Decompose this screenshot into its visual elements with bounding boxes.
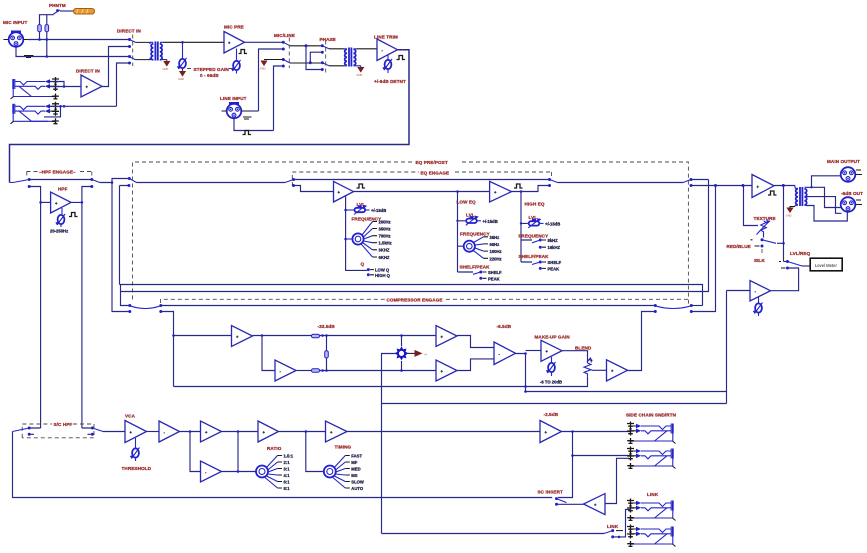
wire to -6db xlr — [806, 197, 842, 214]
potentiometer makeup — [546, 357, 556, 376]
switch red/blue — [751, 238, 777, 247]
wire hpf bypass drop — [29, 187, 40, 429]
SEC_VCA2 — [382, 412, 677, 547]
wire mu gain feed — [526, 350, 542, 352]
switch comp engage out — [654, 304, 693, 313]
svg-text:?: ? — [590, 359, 593, 364]
wire main line to eq engage — [137, 182, 286, 184]
svg-text:LINK: LINK — [607, 524, 619, 529]
svg-text:STEPPED GAIN: STEPPED GAIN — [194, 67, 230, 72]
dashed EQ PRE/POST box — [133, 162, 415, 300]
svg-text:SHELF/PEAK: SHELF/PEAK — [519, 254, 550, 259]
wire eq prepost B stub — [120, 186, 129, 285]
connector XLR J6 -6db out — [841, 197, 856, 212]
svg-text:RED/BLUE: RED/BLUE — [727, 244, 751, 249]
wire line input riser — [259, 49, 284, 111]
wire bus B — [121, 180, 709, 306]
svg-text:+/-15dB: +/-15dB — [483, 219, 498, 224]
potentiometer hpf freq — [55, 208, 65, 227]
svg-text:100Hz: 100Hz — [490, 249, 502, 254]
op-amp U18 — [201, 421, 222, 442]
op-amp U10 comp in- — [275, 360, 296, 381]
block level meter — [810, 258, 842, 271]
svg-text:COMPRESSOR ENGAGE: COMPRESSOR ENGAGE — [387, 297, 443, 302]
svg-text:6KHZ: 6KHZ — [379, 255, 390, 260]
ground gnd1 — [163, 60, 171, 71]
pulse symbol line input — [243, 131, 252, 135]
svg-text:0 - 66dB: 0 - 66dB — [200, 73, 219, 78]
wire jack tip to DI amp — [48, 86, 81, 88]
wire to meter — [802, 265, 810, 267]
svg-text:Q: Q — [361, 261, 365, 266]
wire comp+ out — [253, 335, 312, 337]
dashed EQ ENGAGE — [292, 172, 419, 186]
pulse symbol mic pre — [239, 50, 248, 54]
wire sidechain bus — [526, 391, 727, 393]
wire hpf in — [29, 179, 92, 181]
svg-text:4:1: 4:1 — [284, 473, 291, 478]
wire sum out — [516, 354, 526, 392]
label HPF ENGAGE — [27, 171, 93, 173]
wire phase feed — [290, 46, 322, 63]
op-amp U7 output — [752, 175, 774, 198]
svg-text:BLEND: BLEND — [575, 345, 592, 350]
pulse symbol mid eq — [357, 184, 366, 188]
op-amp U19 — [201, 461, 222, 482]
svg-text:GND: GND — [163, 67, 169, 71]
wire vca feed — [103, 431, 125, 433]
wire eq out to main — [691, 179, 709, 181]
svg-text:8:1: 8:1 — [284, 486, 291, 491]
svg-text:EQ PRE/POST: EQ PRE/POST — [416, 160, 448, 165]
svg-text:SLOW: SLOW — [351, 480, 364, 485]
svg-text:MAKE-UP GAIN: MAKE-UP GAIN — [535, 334, 571, 339]
svg-text:-6.5dB: -6.5dB — [497, 324, 512, 329]
svg-text:3:1: 3:1 — [284, 467, 291, 472]
switch shelf/peak high — [539, 261, 546, 270]
svg-text:1.5:1: 1.5:1 — [284, 454, 294, 459]
switch comp engage in — [128, 304, 162, 313]
wire output to transformer — [774, 185, 795, 187]
wire high eq control drop — [521, 192, 532, 263]
wire XLR leads — [4, 39, 29, 41]
wire comp amp feed — [174, 335, 232, 337]
svg-text:350Hz: 350Hz — [379, 226, 391, 231]
wire u18 out — [222, 431, 259, 433]
switch sc hpf — [13, 427, 104, 436]
resistor R3 — [312, 334, 320, 338]
svg-text:GND: GND — [260, 67, 266, 71]
rotary switch ratio — [256, 456, 282, 489]
potentiometer mid lvl — [344, 205, 369, 215]
svg-text:SC INSERT: SC INSERT — [538, 490, 563, 495]
svg-text:MAIN OUTPUT: MAIN OUTPUT — [827, 159, 860, 164]
jack J2 instrument in upper — [11, 77, 60, 100]
resistor phantom feed (orange) — [74, 9, 95, 15]
svg-text:-6dB OUT: -6dB OUT — [841, 191, 863, 196]
wire comp engage out joins — [691, 305, 702, 307]
rheostat blend — [584, 358, 594, 377]
svg-text:LINK: LINK — [647, 492, 659, 497]
op-amp U20 — [258, 421, 279, 442]
wire eq prepost A drop — [112, 183, 130, 312]
svg-text:VCA: VCA — [125, 414, 136, 419]
switch phantom — [54, 9, 74, 14]
wire mid eq control drop — [346, 196, 367, 270]
switch link — [604, 529, 623, 538]
svg-text:+/-15dB: +/-15dB — [371, 208, 386, 213]
potentiometer meter cal — [753, 297, 763, 316]
svg-text:HPF: HPF — [58, 187, 68, 192]
svg-text:Level Meter: Level Meter — [815, 263, 837, 268]
SEC_TOP2 — [10, 160, 709, 428]
wire transformer secondary — [163, 42, 224, 59]
svg-text:8kHZ: 8kHZ — [548, 238, 559, 243]
switch hpf engage in — [10, 178, 31, 188]
op-amp U8 meter driver — [750, 281, 771, 302]
switch Q — [367, 268, 375, 276]
op-amp U23 sc return — [584, 494, 606, 515]
op-amp U21 — [326, 421, 348, 442]
svg-text:-2.5dB: -2.5dB — [544, 412, 559, 417]
jack J8 sidechain 2 — [627, 447, 676, 470]
potentiometer threshold — [130, 438, 140, 461]
svg-text:HIGH EQ: HIGH EQ — [525, 201, 545, 206]
diode ring — [395, 346, 409, 360]
pulse symbol output — [768, 191, 777, 195]
op-amp U6 low/high eq — [490, 181, 512, 202]
svg-text:SHELF/PEAK: SHELF/PEAK — [460, 265, 491, 270]
connector XLR J5 main output — [841, 167, 856, 182]
rotary switch timing — [324, 456, 350, 489]
svg-text:LINE INPUT: LINE INPUT — [220, 96, 247, 101]
wire diode right vref — [408, 352, 415, 354]
wire resistor joins — [320, 336, 437, 371]
svg-text:MED: MED — [351, 467, 360, 472]
ground gnd3 — [260, 61, 268, 71]
svg-text:AUTO: AUTO — [351, 486, 364, 491]
svg-text:35Hz: 35Hz — [490, 235, 500, 240]
wire main out line — [691, 185, 752, 187]
wire vca out — [147, 431, 160, 433]
svg-text:PEAK: PEAK — [548, 266, 560, 271]
rheostat texture — [757, 220, 771, 235]
svg-text:HIGH Q: HIGH Q — [375, 273, 391, 278]
potentiometer high lvl — [528, 218, 543, 228]
wire comp in drop — [161, 312, 174, 387]
svg-text:THRESHOLD: THRESHOLD — [122, 466, 152, 471]
SEC_OUT2 — [128, 297, 726, 533]
switch hpf engage out — [92, 180, 100, 183]
switch eq engage in — [285, 178, 295, 187]
node hpf amp in — [39, 201, 42, 204]
wire lower inv feed — [190, 432, 201, 472]
wire texture to redblue — [763, 234, 765, 238]
connector XLR J4 line input — [227, 102, 242, 118]
wire sc send 2 — [573, 432, 632, 456]
svg-text:MF: MF — [351, 460, 357, 465]
svg-text:3KHZ: 3KHZ — [379, 248, 390, 253]
potentiometer line trim — [382, 55, 392, 73]
svg-text:FREQUENCY: FREQUENCY — [352, 216, 382, 221]
svg-text:60Hz: 60Hz — [490, 242, 500, 247]
dashed S/C HPF box — [22, 424, 94, 438]
svg-text:DIRECT IN: DIRECT IN — [117, 29, 141, 34]
svg-text:LVL/REQ: LVL/REQ — [790, 251, 811, 256]
wire line input low riser — [274, 66, 284, 131]
svg-text:MIC INPUT: MIC INPUT — [3, 20, 27, 25]
svg-text:MIC/LINE: MIC/LINE — [274, 33, 295, 38]
wire mu out to blend — [562, 351, 588, 363]
op-amp U16 vca — [125, 421, 147, 443]
op-amp U14 makeup — [541, 340, 562, 361]
wire sc send out — [562, 431, 632, 433]
svg-text:-33.5dB: -33.5dB — [318, 324, 336, 329]
node diode taps — [400, 334, 403, 337]
op-amp U3 direct in — [81, 75, 102, 97]
pulse symbol low eq — [514, 184, 523, 188]
resistor R2 phantom — [45, 25, 49, 32]
wire u20 out — [279, 431, 326, 433]
svg-text:+/-6dB DETNT: +/-6dB DETNT — [374, 79, 406, 84]
op-amp U11 rect+ — [436, 326, 457, 347]
switch sc insert — [555, 497, 567, 506]
svg-text:MS: MS — [351, 473, 357, 478]
svg-text:GND: GND — [786, 214, 792, 218]
wire xlr line leads — [222, 111, 252, 119]
svg-text:6:1: 6:1 — [284, 480, 291, 485]
svg-text:1.5kHz: 1.5kHz — [379, 241, 392, 246]
svg-text:220Hz: 220Hz — [490, 256, 502, 261]
svg-text:GND: GND — [178, 77, 184, 81]
svg-text:16kHZ: 16kHZ — [548, 245, 561, 250]
svg-text:SHELF: SHELF — [548, 260, 562, 265]
label stepped gain — [187, 68, 234, 70]
dashed COMPRESSOR ENGAGE — [161, 299, 386, 303]
svg-text:200Hz: 200Hz — [379, 219, 391, 224]
wire blend wiper to amp — [594, 369, 607, 371]
jack J7 sidechain 1 — [627, 422, 676, 445]
svg-text:700Hz: 700Hz — [379, 234, 391, 239]
wire mic hot y39.5 — [28, 32, 130, 40]
symbol vref arrow — [415, 350, 428, 357]
wire hpf post drop — [81, 202, 83, 428]
wire jack2 to switch — [117, 63, 130, 106]
svg-text:FREQUENCY: FREQUENCY — [519, 234, 549, 239]
ground gnd4 — [357, 66, 365, 77]
svg-text:TIMING: TIMING — [335, 444, 352, 449]
wire to main xlr — [806, 176, 841, 188]
wire low eq control drop — [458, 192, 474, 273]
wire jack3 ring jumper — [48, 105, 117, 107]
resistor R1 phantom — [38, 25, 42, 32]
op-amp U5 mid eq — [334, 181, 354, 202]
svg-text:2:1: 2:1 — [284, 460, 291, 465]
wire blend bottom rail — [174, 377, 588, 387]
wire link riser — [613, 510, 631, 537]
op-amp U12 rect- — [436, 360, 457, 381]
svg-text:20-250Hz: 20-250Hz — [50, 229, 68, 234]
wire switch to transformer — [136, 42, 151, 59]
svg-text:–HPF ENGAGE–: –HPF ENGAGE– — [39, 169, 76, 174]
resistor R5 shunt — [325, 336, 329, 371]
wire comp bypass line — [161, 305, 656, 307]
wire timing join — [306, 432, 324, 472]
SEC_COMP2 — [13, 414, 553, 498]
wire link line — [382, 533, 605, 535]
wire ratio join — [222, 432, 257, 472]
switch meter select — [779, 260, 802, 270]
wire texture feed — [744, 186, 759, 226]
switch eq pre/post — [127, 177, 136, 187]
svg-text:DIRECT IN: DIRECT IN — [76, 69, 100, 74]
wire sc insert riser — [558, 456, 573, 498]
pulse symbol hpf — [69, 213, 78, 217]
potentiometer stepped gain 2 — [231, 49, 241, 74]
switch eq engage out — [683, 178, 693, 187]
svg-text:PHASE: PHASE — [320, 37, 336, 42]
wire rect outs to sum — [457, 336, 494, 371]
switch phase — [321, 41, 329, 73]
wire eq in drop — [294, 186, 334, 192]
op-amp U9 comp in+ — [232, 326, 253, 347]
svg-text:PEAK: PEAK — [488, 276, 500, 281]
wire eq bypass line — [294, 179, 550, 181]
wire sc rtn from jack2 — [605, 458, 629, 503]
transformer T3 output — [795, 186, 807, 207]
ground gnd2 — [178, 68, 186, 81]
wire mid eq out — [354, 191, 490, 193]
wire u21 out to sc amp — [347, 431, 540, 433]
svg-text:TEXTURE: TEXTURE — [754, 216, 776, 221]
wire comp out riser — [628, 312, 656, 371]
wire phase crossover — [306, 46, 322, 70]
wire mic cold y56.8 — [16, 40, 130, 57]
svg-text:+/-15dB: +/-15dB — [545, 221, 560, 226]
wire bus A — [120, 285, 703, 306]
resistor R4 — [312, 369, 320, 373]
connector XLR J1 mic input — [9, 31, 24, 47]
wire low eq out jog — [512, 186, 550, 192]
wire sc insert return drop — [13, 432, 553, 498]
potentiometer stepped gain 1 — [177, 42, 187, 69]
wire mic pre out — [245, 41, 284, 43]
wire meter amp in — [727, 291, 751, 404]
svg-text:FAST: FAST — [351, 454, 362, 459]
wire inverter feed — [262, 336, 275, 371]
wire t2 to line trim — [357, 48, 377, 50]
ground gnd5 — [786, 207, 795, 218]
rotary switch low freq — [464, 237, 488, 258]
wire line trim out feedback box — [10, 50, 410, 183]
wire inv out — [296, 370, 312, 372]
wire hpf out — [71, 187, 92, 203]
op-amp U17 — [159, 421, 180, 442]
wire phase to transformer2 — [329, 49, 344, 66]
wire diode left to sc bus — [382, 354, 396, 534]
node stepped gain tap — [181, 41, 184, 44]
svg-text:PHNTM: PHNTM — [49, 3, 66, 8]
pulse symbol line trim — [397, 56, 406, 60]
wire di amp out to switch — [102, 47, 130, 87]
op-amp U2 line trim — [377, 39, 398, 61]
transformer T2 line in — [344, 48, 361, 67]
rotary switch mid freq — [344, 222, 377, 258]
op-amp U15 comp out — [607, 360, 628, 381]
jack J9 link 1 — [627, 499, 676, 522]
svg-text:+V: +V — [424, 352, 428, 356]
wire hpf amp in — [41, 201, 51, 203]
wire to eq prepost — [100, 179, 129, 183]
svg-text:-6 TO 20dB: -6 TO 20dB — [540, 380, 562, 385]
wire meter amp out — [771, 268, 799, 291]
svg-text:LOW Q: LOW Q — [375, 268, 390, 273]
potentiometer low lvl — [466, 216, 481, 226]
svg-text:SILK: SILK — [754, 258, 765, 263]
wire sc return amp out — [558, 503, 584, 505]
wire redblue to out node — [777, 186, 784, 262]
SEC_EQ2 — [691, 159, 863, 404]
jack J10 link 2 — [627, 525, 676, 548]
svg-text:S/C HPF: S/C HPF — [54, 422, 73, 427]
wire sc lower bus — [382, 403, 727, 405]
wire gnd stub mic/line — [264, 59, 283, 61]
switch shelf/peak low — [473, 271, 487, 280]
op-amp U1 mic pre — [224, 32, 245, 54]
svg-text:LOW EQ: LOW EQ — [457, 200, 477, 205]
switch direct in 4pole — [128, 35, 136, 67]
op-amp U13 sum — [494, 342, 516, 365]
wire phantom to resistors — [40, 14, 54, 25]
op-amp U4 hpf — [51, 192, 71, 213]
svg-text:EQ ENGAGE: EQ ENGAGE — [421, 170, 450, 175]
svg-text:FREQUENCY: FREQUENCY — [460, 231, 490, 236]
wire comp return riser — [691, 186, 715, 312]
jack J3 instrument in lower — [11, 102, 60, 125]
switch mic/line — [282, 38, 290, 69]
wire u17 out — [180, 431, 201, 433]
transformer T1 mic input — [150, 42, 163, 61]
svg-text:GND: GND — [357, 73, 363, 77]
svg-text:RATIO: RATIO — [267, 446, 282, 451]
svg-text:MIC PRE: MIC PRE — [224, 25, 244, 30]
op-amp U22 sc send — [540, 421, 562, 443]
svg-text:SIDE CHAIN SND/RTN: SIDE CHAIN SND/RTN — [626, 413, 677, 418]
switch high freq — [539, 239, 546, 249]
svg-text:SHELF: SHELF — [488, 270, 502, 275]
